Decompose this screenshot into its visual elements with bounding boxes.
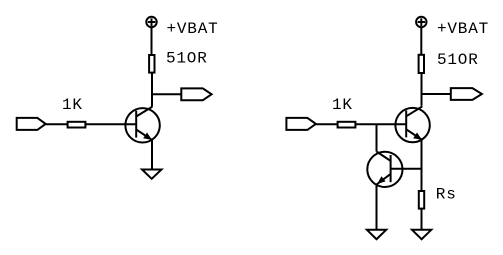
power +VBAT symbol right [416,17,426,27]
wire Rs to ground [421,209,423,230]
input tag left [17,118,46,130]
power +VBAT symbol left [146,17,156,27]
transistor Q1 left [125,107,159,143]
svg-text:51OR: 51OR [166,50,208,68]
svg-text:1K: 1K [332,96,353,114]
ground under Q3 [367,230,386,239]
transistor Q3 right lower (mirrored) [367,152,402,187]
wire power to resistor R1 [151,27,153,55]
wire node to output tag [152,93,181,95]
resistor 1K left [68,122,86,128]
svg-text:+VBAT: +VBAT [167,20,219,38]
ground under Rs [412,230,431,239]
wire tag to resistor 1K right [316,123,338,125]
wire emitter to ground [151,140,153,169]
wire tag to resistor 1K [46,123,68,125]
wire 1K to base Q2 [355,123,406,125]
svg-text:51OR: 51OR [437,51,479,69]
ground left [142,170,162,179]
wire node to output tag right [422,93,451,95]
wire input node down to Q3 collector [376,124,378,151]
resistor 510R right [419,55,424,73]
wire power to resistor right [420,27,422,54]
svg-text:+VBAT: +VBAT [437,20,489,38]
resistor Rs [419,191,424,209]
resistor 510R left [149,55,154,73]
output tag right [451,88,482,100]
wire Q2 emitter to Rs [421,139,423,191]
wire Q3 base to Rs top node [391,168,422,170]
resistor 1K right [338,122,356,128]
svg-text:1K: 1K [62,96,83,114]
wire resistor to collector node right [421,72,423,106]
wire resistor to collector node [151,73,153,107]
wire 1K to base [85,123,136,125]
transistor Q2 right upper [395,106,429,142]
output tag left [181,88,211,100]
wire Q3 emitter to ground [376,185,378,230]
svg-text:Rs: Rs [436,185,457,203]
input tag right [286,118,316,130]
